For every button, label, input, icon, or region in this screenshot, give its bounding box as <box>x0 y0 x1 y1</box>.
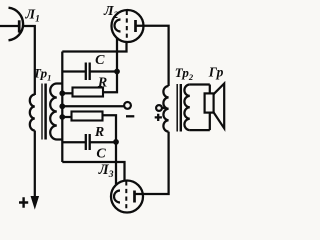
capacitor C1 plates <box>86 63 90 81</box>
junction dot bus tap1 <box>59 103 65 109</box>
junction dot C2-cathode <box>113 139 119 145</box>
terminal plus circle <box>156 105 162 111</box>
transformer Tr2 core line thin <box>176 84 178 132</box>
svg-text:Гр: Гр <box>208 65 224 80</box>
svg-text:С: С <box>95 53 105 68</box>
svg-text:Тр1: Тр1 <box>33 66 51 83</box>
tube U1 (Л1) envelope arc <box>9 8 24 41</box>
capacitor C2 plates <box>86 134 90 150</box>
wire: plus terminal to Tr2 center tap <box>162 107 167 109</box>
resistor R1 left wire <box>62 92 72 94</box>
speaker horn <box>214 84 225 129</box>
wire: U1 anode to Tr1 primary top <box>23 26 34 95</box>
wire grid bus vertical <box>61 52 63 163</box>
label + near Tr2 <box>155 114 162 121</box>
transformer Tr2 primary winding <box>163 86 168 132</box>
wire: U3 anode to Tr2 primary bottom <box>135 132 169 194</box>
tube U3 cathode arc <box>114 191 120 203</box>
wire: speaker vertical <box>209 85 211 131</box>
transformer Tr2 core line thick <box>180 84 182 132</box>
wire: bottom grid wire to tube U3 grid <box>62 162 124 180</box>
capacitor C1 right wire <box>90 70 117 72</box>
wire: center tap to minus terminal <box>62 105 124 107</box>
resistor R2 box <box>72 112 103 121</box>
tube U3 grid dashed <box>125 181 127 211</box>
capacitor C2 right wire <box>90 141 116 143</box>
capacitor C1 left wire <box>62 70 86 72</box>
label + supply <box>19 197 28 208</box>
junction dot C1-cathode <box>114 69 120 75</box>
transformer Tr2 secondary winding <box>184 85 189 131</box>
svg-text:Тр2: Тр2 <box>175 65 194 82</box>
svg-text:С: С <box>96 147 106 162</box>
transformer Tr1 core line thick <box>44 84 47 140</box>
tube U1 anode bar <box>18 20 21 32</box>
capacitor C2 left wire <box>62 141 86 143</box>
svg-text:Л3: Л3 <box>98 162 114 180</box>
tube U2 cathode arc <box>115 20 121 32</box>
label minus <box>126 115 134 117</box>
svg-text:R: R <box>97 75 107 90</box>
tube U2 anode bar <box>134 20 137 32</box>
tube U2 (Л2) envelope <box>112 10 144 42</box>
wire: Tr2 secondary to speaker top <box>190 83 210 85</box>
resistor R1 right wire to U2 cathode lead <box>103 38 117 92</box>
tube U1 cathode line <box>0 25 18 27</box>
svg-text:R: R <box>94 125 104 140</box>
resistor R1 box <box>73 88 104 97</box>
arrowhead supply <box>31 197 38 209</box>
svg-text:Л2: Л2 <box>103 4 119 21</box>
junction dot bus R2 <box>59 114 65 120</box>
transformer Tr1 secondary winding <box>50 84 62 140</box>
terminal minus circle <box>124 102 131 109</box>
speaker driver rect <box>205 93 214 112</box>
junction dot bus R1 <box>59 90 65 96</box>
wire: Tr2 secondary to speaker bottom <box>190 129 210 131</box>
transformer Tr1 core line thin <box>41 84 43 140</box>
resistor R2 right wire to U3 cathode lead <box>103 115 117 184</box>
resistor R2 left wire <box>62 116 71 118</box>
wire: top grid wire to tube U2 grid <box>62 42 126 52</box>
tube U3 anode bar <box>133 191 136 203</box>
tube U2 grid dashed <box>126 11 128 41</box>
svg-text:Л1: Л1 <box>25 7 40 24</box>
wire: U2 anode to Tr2 primary top <box>136 26 169 86</box>
wire: Tr1 primary bottom to + supply <box>34 131 36 199</box>
transformer Tr1 primary winding <box>30 95 35 131</box>
tube U3 (Л3) envelope <box>111 181 143 213</box>
